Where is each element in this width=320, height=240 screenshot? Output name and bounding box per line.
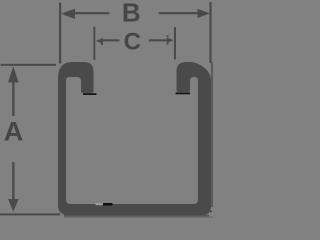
C left arrowhead nub xyxy=(101,43,103,45)
dimension C: left line segment xyxy=(102,39,120,41)
C right arrowhead nubs xyxy=(167,35,169,37)
dimension A: top extension line xyxy=(1,64,57,66)
dimension A: up arrowhead xyxy=(8,66,19,82)
strut channel dimension diagram xyxy=(0,0,213,218)
svg-text:A: A xyxy=(4,116,24,146)
light streak on inner bottom edge xyxy=(96,203,104,205)
dimension B: left line segment xyxy=(73,12,109,14)
black shadow streak under left lip tip xyxy=(83,93,97,95)
dimension B: right arrowhead xyxy=(198,9,211,18)
dimension A: lower shaft xyxy=(12,162,14,200)
channel (strut) cross-section body xyxy=(58,62,211,215)
dimension A: bottom extension line xyxy=(0,213,60,215)
svg-text:C: C xyxy=(124,29,141,56)
dimension C: right extension line xyxy=(174,27,176,60)
dimension A: upper shaft xyxy=(12,80,14,116)
dimension C: right line segment xyxy=(149,39,168,41)
svg-text:B: B xyxy=(122,0,141,27)
shadow strip right of right wall xyxy=(211,62,213,207)
shadow strip under channel bottom xyxy=(64,215,209,217)
black shadow streak under right lip tip xyxy=(176,92,191,94)
dimension B: left arrowhead xyxy=(61,9,75,19)
black dot at left B extension line foot xyxy=(59,62,60,64)
dimension B: left extension line xyxy=(59,3,61,64)
dimension C: left arrowhead xyxy=(96,38,103,44)
black dot near bottom-right corner xyxy=(210,211,211,212)
dimension B: right extension line xyxy=(209,2,211,62)
dimension B: right line segment xyxy=(159,12,198,14)
black streak on inner bottom edge xyxy=(103,203,113,206)
dimension A: down arrowhead xyxy=(8,199,19,212)
dimension C: left extension line xyxy=(93,27,95,60)
black dot at right B extension line foot xyxy=(210,61,211,63)
dimension C: right arrowhead xyxy=(167,37,174,43)
